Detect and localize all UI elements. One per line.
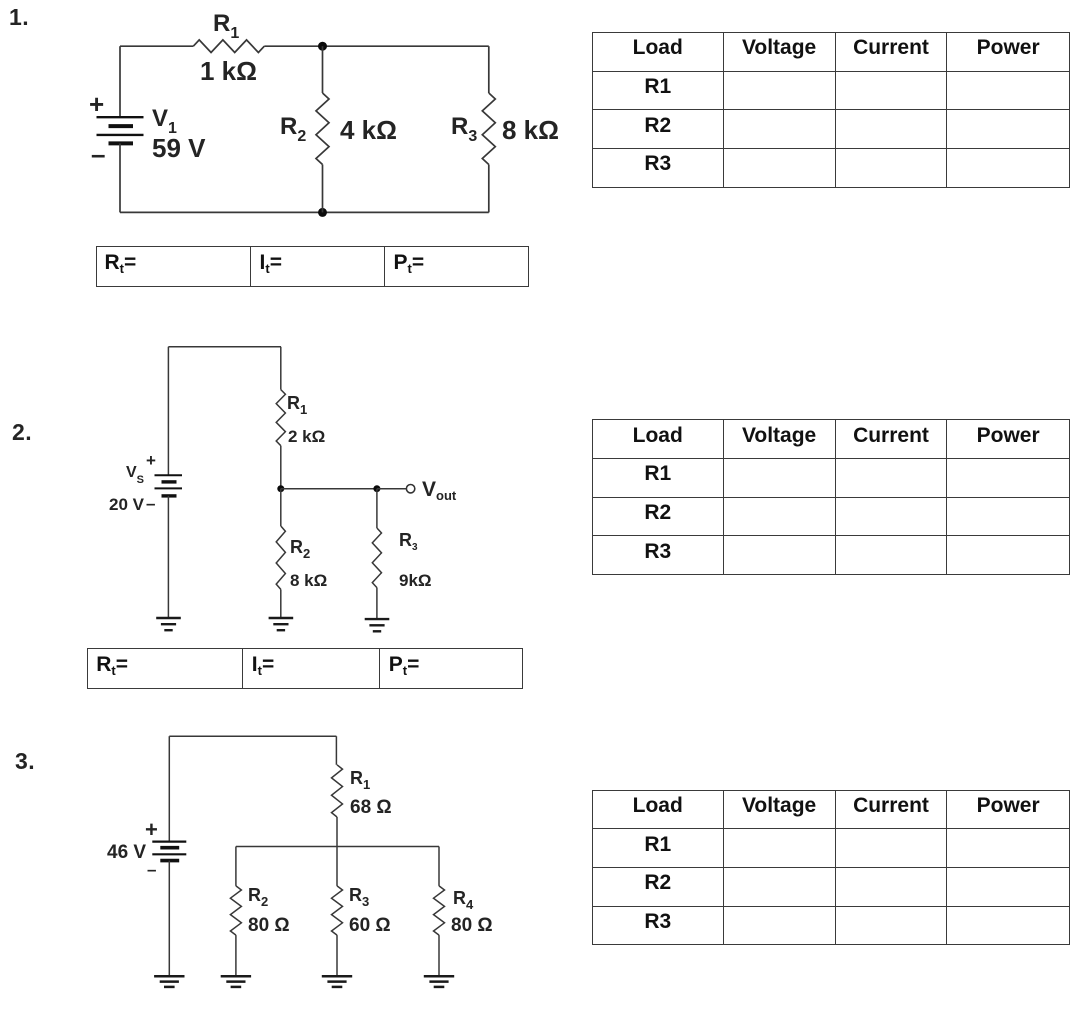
wire: R1 bottom lead to node C [280,446,282,489]
battery Vs plus sign [146,452,156,469]
wire: left column upper (battery V1 top lead) [119,46,121,117]
wire: R3 bottom lead to ground [336,935,338,976]
label V1 [152,107,177,131]
battery V1 plus sign [89,91,104,117]
label R4 (circuit 3) [453,889,473,907]
wire: top rail circuit 3 [169,735,336,737]
wire: R3 top lead (circuit 2) [376,489,378,528]
label 59 V [152,135,206,161]
wire: R1 bottom lead through bus down to R3 [336,817,338,886]
results table circuit 1 [96,246,529,287]
ground (battery 46V) [154,976,184,987]
label 80 Ohm (circuit 3, R4) [451,916,493,935]
problem number 1 [9,6,29,29]
wire: R2 bottom lead to ground [235,935,237,976]
resistor R3 (60 Ohm, circuit 3) [332,886,343,935]
label 80 Ohm (circuit 3, R2) [248,916,290,935]
battery 46V plates [152,842,186,861]
wire: R4 bottom lead to ground [438,935,440,976]
label 4 kOhm (circuit 1) [340,117,397,143]
label 9kOhm (circuit 2) [399,572,432,589]
wire: R3 bottom lead [488,165,490,213]
node Vout open terminal [406,485,414,493]
label R1 (circuit 1) [213,12,239,36]
wire: top segment from R1 to node A and to top-right corner [264,45,489,47]
label 2 kOhm (circuit 2) [288,428,325,445]
problem number 2 [12,421,32,444]
wire: R3 top lead (right column) [488,46,490,93]
wire: R1 top lead (circuit 2) [280,347,282,390]
node A (top junction dot) [318,42,327,51]
label R3 (circuit 3) [349,886,369,904]
wire: battery 46V bottom lead to ground [168,861,170,977]
wire: left column lower (battery V1 bottom lead) [119,143,121,212]
ground (R3 circuit 2) [365,619,390,631]
load table circuit 3 [592,790,1070,946]
wire: R2 bottom lead [322,165,324,213]
wire: top rail circuit 2 [168,346,281,348]
resistor R3 (8 kOhm, vertical) [482,93,495,165]
label 8 kOhm (circuit 2) [290,572,327,589]
node B (bottom junction dot) [318,208,327,217]
battery V1 plates [97,117,144,143]
ground (R2 circuit 2) [269,618,294,630]
label R2 (circuit 2) [290,538,310,556]
battery Vs plates [155,475,183,496]
label 60 Ohm (circuit 3) [349,916,391,935]
wire: top left segment from battery column to R1 [120,45,193,47]
resistor R2 (4 kOhm, vertical) [316,93,329,165]
wire: battery Vs top lead [167,347,169,475]
label Vs [126,465,144,481]
label 8 kOhm (circuit 1) [502,117,559,143]
battery 46V minus sign [147,861,156,878]
label R3 (circuit 1) [451,115,477,139]
resistor R1 (68 Ohm, circuit 3) [332,765,343,817]
wire: R4 top lead from bus [438,847,440,886]
resistor R4 (80 Ohm, circuit 3) [434,886,445,935]
label 68 Ohm (circuit 3) [350,798,392,817]
load table circuit 2 [592,419,1070,575]
wire: R2 bottom lead to ground [280,589,282,618]
battery Vs minus sign [146,495,155,512]
wire: battery 46V top lead [168,736,170,841]
label 1 kOhm (circuit 1) [200,58,257,84]
wire: R2 top lead [322,46,324,93]
label R1 (circuit 2) [287,394,307,412]
wire: node C to node D horizontal [281,488,377,490]
label 20 V [109,496,144,513]
wire: node D to Vout terminal [377,488,406,490]
results table circuit 2 [87,648,523,689]
resistor R1 (1 kOhm, horizontal) [193,40,264,53]
node D (junction dot to Vout) [373,485,380,492]
ground (R2 circuit 3) [221,976,251,987]
load table circuit 1 [592,32,1070,188]
wire: R2 top lead (circuit 2) [280,489,282,526]
ground (battery Vs) [156,618,181,630]
node C (divider junction dot) [277,485,284,492]
ground (R3 circuit 3) [322,976,352,987]
resistor R1 (2 kOhm, circuit 2) [276,390,285,446]
label 46 V [107,843,146,862]
problem number 3 [15,750,35,773]
ground (R4 circuit 3) [424,976,454,987]
battery 46V plus sign [145,819,158,841]
wire: battery Vs bottom lead to ground [167,496,169,618]
battery V1 minus sign [91,141,105,167]
label R3 (circuit 2) [399,531,418,549]
wire: R3 bottom lead to ground [376,588,378,620]
resistor R2 (8 kOhm, circuit 2) [276,526,285,589]
resistor R2 (80 Ohm, circuit 3) [230,886,241,935]
resistor R3 (9 kOhm, circuit 2) [372,528,381,588]
wire: bottom rail [120,211,489,213]
label Vout [422,479,456,500]
label R2 (circuit 3) [248,886,268,904]
wire: middle bus rail circuit 3 [236,846,439,848]
wire: R1 top lead (circuit 3) [335,736,337,765]
wire: R2 top lead from bus [235,847,237,886]
label R2 (circuit 1) [280,115,306,139]
label R1 (circuit 3) [350,769,370,787]
